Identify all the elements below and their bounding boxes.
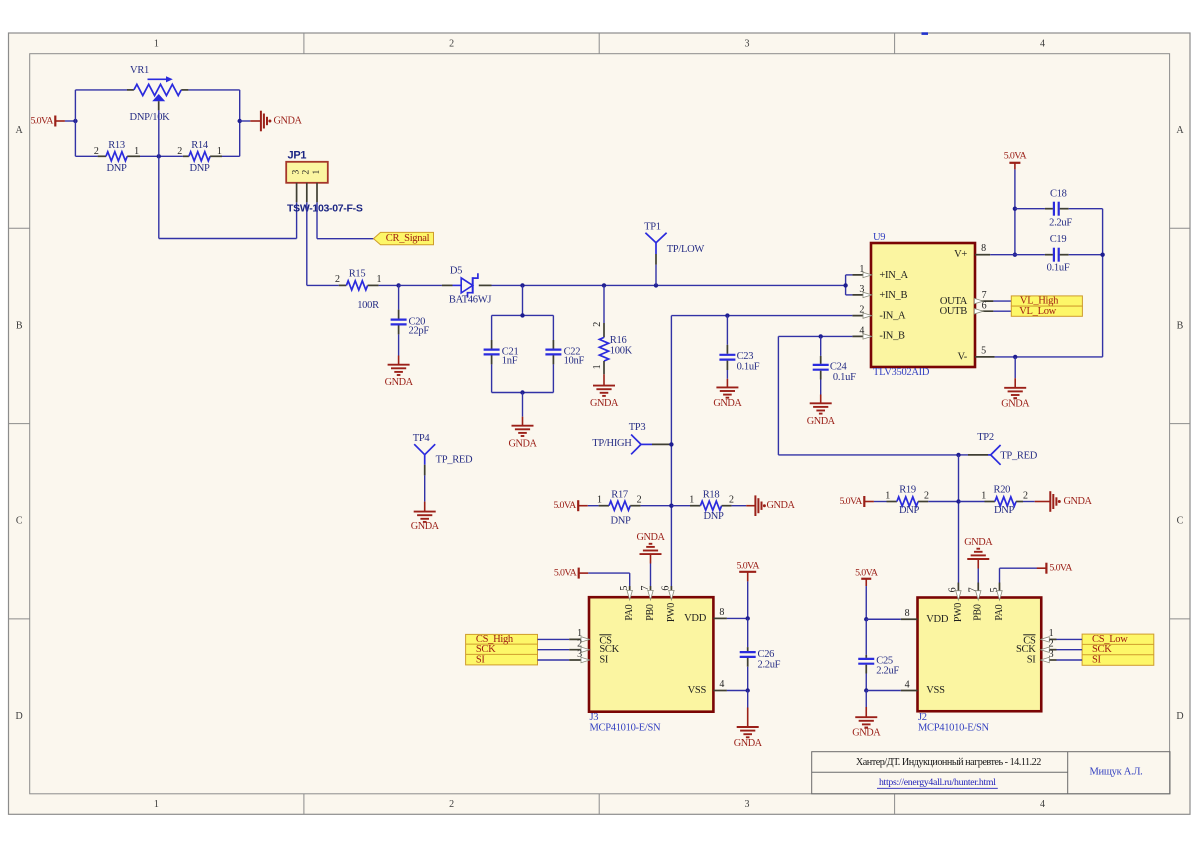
svg-text:3: 3 [1049,649,1054,660]
ground GNDA (C24) [807,395,836,428]
node TP3 junction [669,442,673,446]
svg-text:2: 2 [449,799,454,810]
svg-text:5: 5 [989,587,1000,592]
node C19 right junction [1100,253,1104,257]
stray blue mark on top border [922,32,929,35]
svg-text:5.0VA: 5.0VA [1049,563,1073,574]
svg-text:100R: 100R [357,300,379,311]
svg-text:+IN_A: +IN_A [879,270,908,281]
U9 pin 5 stub [975,346,995,357]
svg-text:R14: R14 [191,140,209,151]
J2 pin 7 stub [968,569,981,601]
U9 pin 7 stub [974,290,993,304]
svg-text:GNDA: GNDA [807,416,836,427]
node R15/C20 junction [396,283,400,287]
svg-text:V+: V+ [954,249,967,260]
wire C18 right down [1102,209,1104,357]
node V+ junction [1013,253,1017,257]
capacitor C19 [1015,234,1103,273]
J3 pin 8 stub [713,607,747,618]
svg-text:1: 1 [377,274,382,285]
svg-text:-IN_A: -IN_A [879,310,906,321]
svg-text:5.0VA: 5.0VA [554,568,578,579]
svg-text:2: 2 [302,170,312,175]
J3 pin 5 stub [619,586,632,600]
svg-text:4: 4 [1040,799,1045,810]
svg-text:22pF: 22pF [409,325,430,336]
node VDD J3 junction [746,616,750,620]
J3 pin 3 wire [538,649,590,663]
U9 pin 3 stub [852,284,871,298]
svg-text:0.1uF: 0.1uF [1047,262,1070,273]
svg-text:CR_Signal: CR_Signal [386,233,430,244]
svg-text:R18: R18 [703,489,720,500]
svg-text:4: 4 [905,680,910,691]
svg-text:2: 2 [924,490,929,501]
svg-text:1: 1 [981,490,986,501]
svg-text:D5: D5 [450,266,462,277]
ground GNDA (V-) [1001,357,1030,410]
svg-text:+IN_B: +IN_B [879,290,907,301]
svg-text:VR1: VR1 [130,65,149,76]
svg-text:2: 2 [1023,490,1028,501]
svg-text:5.0VA: 5.0VA [553,500,577,511]
svg-text:DNP: DNP [189,163,210,174]
resistor R14 [159,140,240,174]
svg-text:1: 1 [217,146,222,157]
node R16 tap [602,283,606,287]
svg-text:2.2uF: 2.2uF [1049,217,1072,228]
svg-text:6: 6 [661,586,672,591]
svg-text:7: 7 [982,290,987,301]
ground GNDA (R20) [1035,501,1050,503]
wire 5.0VA to left rail [65,120,76,122]
svg-text:2: 2 [592,322,603,327]
svg-text:R19: R19 [899,485,916,496]
ground GNDA (C23) [713,379,742,409]
test point TP3 [592,422,671,454]
wire R15 node to D5 [399,284,442,286]
node C21 tap [520,283,524,287]
wire VR1 top left [75,89,127,91]
node wiper junction [157,154,161,158]
resistor R15 [335,268,399,311]
svg-text:A: A [16,125,24,136]
diode D5 BAT46WJ [442,266,492,306]
svg-text:GNDA: GNDA [1064,496,1093,507]
svg-text:1: 1 [1049,628,1054,639]
svg-text:1: 1 [885,490,890,501]
svg-text:3: 3 [859,284,864,295]
node C23 tap [725,313,729,317]
svg-text:TP_RED: TP_RED [1000,451,1037,462]
capacitor C18 [1015,189,1103,229]
svg-text:8: 8 [905,608,910,619]
svg-text:DNP: DNP [703,511,724,522]
svg-text:4: 4 [719,679,724,690]
svg-text:1: 1 [689,495,694,506]
ground GNDA (right of VR1) [240,111,303,132]
svg-text:GNDA: GNDA [411,521,440,532]
svg-text:PA0: PA0 [994,604,1005,620]
J2 pin 5 stub [989,583,1002,601]
svg-text:GNDA: GNDA [767,500,796,511]
svg-text:2: 2 [177,146,182,157]
svg-text:R15: R15 [349,268,366,279]
svg-text:5: 5 [981,346,986,357]
capacitor C23 [719,316,759,379]
svg-text:1: 1 [312,170,322,175]
net flag VL_Low [993,306,1082,317]
svg-text:PW0: PW0 [666,603,677,622]
node VDD J2 junction [864,617,868,621]
svg-text:VSS: VSS [926,685,945,696]
svg-text:1: 1 [154,38,159,49]
svg-text:8: 8 [981,243,986,254]
svg-text:2: 2 [449,38,454,49]
wire C26 rail [747,581,749,618]
svg-text:U9: U9 [873,232,885,243]
svg-text:VSS: VSS [688,685,707,696]
J2 pin 4 stub [866,680,917,691]
IC J2 MCP41010-E/SN [918,598,1042,734]
svg-text:GNDA: GNDA [734,738,763,749]
svg-text:C19: C19 [1050,234,1067,245]
svg-text:B: B [16,320,23,331]
svg-text:3: 3 [745,799,750,810]
svg-text:C24: C24 [830,362,848,373]
wire -IN_B net [778,336,958,455]
wire V+ row [990,254,1015,256]
U9 pin 8 stub [975,243,990,255]
ground GNDA (C21/C22) [509,393,538,450]
capacitor C24 [813,336,856,394]
svg-text:GNDA: GNDA [590,398,619,409]
svg-text:GNDA: GNDA [509,439,538,450]
svg-text:7: 7 [640,586,651,591]
svg-text:1: 1 [577,628,582,639]
node TP2 junction [956,453,960,457]
J2 pin 3 wire [1041,649,1083,663]
J2 pin 2 wire [1041,639,1083,653]
svg-text:D: D [16,711,23,722]
svg-text:PW0: PW0 [953,603,964,622]
svg-text:5: 5 [619,586,630,591]
svg-text:DNP: DNP [994,505,1015,516]
wire main net D5 to U9 [492,284,846,286]
wire V- row [995,356,1103,358]
resistor R16 [592,285,632,374]
node +IN junction [843,283,847,287]
ground GNDA (J2 PB0) [964,537,993,569]
J3 pin 7 stub [640,564,653,600]
svg-text:2: 2 [335,274,340,285]
J3 pin 2 wire [538,639,590,653]
svg-text:TP/LOW: TP/LOW [667,244,705,255]
svg-text:PA0: PA0 [624,604,635,620]
wire +IN branch [846,275,853,295]
wire C21/C22 top [492,314,554,316]
svg-text:5.0VA: 5.0VA [855,568,879,579]
ground GNDA (C20) [385,356,414,389]
capacitor C20 [391,285,430,355]
IC J3 MCP41010-E/SN [589,597,713,733]
svg-text:PB0: PB0 [645,604,656,621]
wire VR1 left rail [74,90,76,156]
svg-text:Мищук А.Л.: Мищук А.Л. [1090,766,1143,777]
svg-text:4: 4 [859,326,864,337]
svg-text:3: 3 [292,170,302,175]
wire -IN_A net [671,316,852,586]
svg-text:MCP41010-E/SN: MCP41010-E/SN [918,722,989,733]
resistor R13 [75,140,158,174]
svg-text:-IN_B: -IN_B [879,331,905,342]
svg-text:Хантер/ДТ. Индукционный нагрев: Хантер/ДТ. Индукционный нагревтеь - 14.1… [856,757,1041,768]
ground GNDA (J3 PB0) [637,532,666,563]
svg-text:TP/HIGH: TP/HIGH [592,438,632,449]
U9 pin 6 stub [974,300,993,314]
svg-text:GNDA: GNDA [964,537,993,548]
resistor R17 [588,489,672,526]
ground GNDA (C26) [734,691,763,750]
svg-text:1: 1 [592,364,603,369]
J3 pin 4 stub [713,679,747,690]
svg-text:GNDA: GNDA [637,532,666,543]
svg-text:2: 2 [859,305,864,316]
svg-text:1: 1 [154,799,159,810]
svg-text:C18: C18 [1050,189,1067,200]
J2 pin 8 stub [866,608,917,619]
svg-text:2.2uF: 2.2uF [758,659,781,670]
svg-text:TP2: TP2 [977,432,994,443]
wire JP1 pin 2 down to R15 [307,202,339,285]
resistor R20 [959,485,1035,517]
svg-text:100K: 100K [610,345,633,356]
node VSS J3 junction [746,688,750,692]
svg-text:6: 6 [982,300,987,311]
U9 pin 1 stub [852,264,871,278]
wire VR1 top right [188,89,239,91]
wire wiper column down [158,110,160,238]
svg-text:5.0VA: 5.0VA [1004,151,1028,162]
net flag CS_High [466,634,538,665]
svg-text:B: B [1177,320,1184,331]
svg-text:TP_RED: TP_RED [436,455,473,466]
svg-text:SI: SI [1027,655,1037,666]
svg-text:GNDA: GNDA [274,116,303,127]
wire C21/C22 bottom [492,392,554,394]
J2 pin 6 stub [948,583,961,601]
svg-text:VDD: VDD [684,613,707,624]
capacitor C22 [545,315,584,392]
svg-text:DNP/10K: DNP/10K [130,112,171,123]
J3 pin 6 stub [661,586,674,600]
node VSS J2 junction [864,688,868,692]
svg-text:8: 8 [719,607,724,618]
test point TP4 [413,433,473,502]
power 5.0VA (J3 PA0) [554,568,630,586]
net flag CR_Signal [374,232,434,244]
J2 pin 1 wire [1041,628,1083,642]
node C24 tap [819,334,823,338]
svg-text:10nF: 10nF [564,356,585,367]
svg-text:SI: SI [599,655,609,666]
svg-text:6: 6 [948,587,959,592]
svg-text:2: 2 [637,495,642,506]
svg-text:TP1: TP1 [644,222,661,233]
wire VR1 right rail [239,90,241,156]
svg-text:OUTB: OUTB [940,306,968,317]
svg-text:0.1uF: 0.1uF [737,361,760,372]
node TP1 tap [654,283,658,287]
wire down to C21/C22 block [522,285,524,315]
capacitor C21 [484,315,519,392]
svg-text:VL_Low: VL_Low [1019,306,1056,317]
svg-text:2: 2 [729,495,734,506]
resistor R18 [671,489,746,522]
svg-text:1: 1 [134,146,139,157]
ground GNDA (R16) [590,374,619,409]
wire wiper to JP1 pin 3 [159,238,297,240]
svg-text:DNP: DNP [610,515,631,526]
capacitor C25 [858,619,899,690]
svg-text:GNDA: GNDA [713,398,742,409]
svg-text:VDD: VDD [926,614,949,625]
test point TP2 [959,432,1038,465]
potentiometer VR1 [127,65,188,123]
resistor R19 [874,485,959,517]
svg-text:DNP: DNP [899,505,920,516]
power 5.0VA (J2 PA0) [1000,563,1074,583]
node R19/R20 junction [956,499,960,503]
svg-text:3: 3 [745,38,750,49]
svg-text:1nF: 1nF [502,356,518,367]
J3 pin 1 wire [538,628,590,642]
svg-text:GNDA: GNDA [852,727,881,738]
svg-text:2.2uF: 2.2uF [876,665,899,676]
svg-text:5.0VA: 5.0VA [839,496,863,507]
node C18 junction [1013,207,1017,211]
U9 pin 2 stub [852,305,871,319]
svg-text:GNDA: GNDA [385,377,414,388]
wire -IN_A column to J3 PW0 [670,586,672,597]
test point TP1 [644,222,704,286]
svg-text:D: D [1176,711,1183,722]
connector JP1 [286,149,363,214]
svg-text:TP3: TP3 [629,422,646,433]
svg-text:1: 1 [597,495,602,506]
svg-text:TLV3502AID: TLV3502AID [873,367,930,378]
svg-text:R13: R13 [108,140,125,151]
wire JP1 pin 1 to CR_Signal [317,202,374,238]
wire 5.0VA down to C18 row [1014,169,1016,254]
svg-text:TSW-103-07-F-S: TSW-103-07-F-S [287,203,363,215]
svg-text:JP1: JP1 [288,149,307,161]
title block [812,752,1170,794]
ground GNDA (C25) [852,691,881,739]
node V- junction [1013,355,1017,359]
wire C25 rail top [865,586,867,619]
svg-text:5.0VA: 5.0VA [737,561,761,572]
svg-text:R17: R17 [611,489,628,500]
svg-text:4: 4 [1040,38,1045,49]
svg-text:1: 1 [859,264,864,275]
svg-text:R20: R20 [993,485,1010,496]
capacitor C26 [740,618,781,690]
svg-text:MCP41010-E/SN: MCP41010-E/SN [590,722,661,733]
svg-text:SI: SI [1092,654,1102,665]
svg-text:2: 2 [94,146,99,157]
svg-text:5.0VA: 5.0VA [30,116,54,127]
svg-text:3: 3 [577,649,582,660]
svg-text:SI: SI [476,654,486,665]
net flag CS_Low [1082,634,1154,666]
svg-text:GNDA: GNDA [1001,398,1030,409]
svg-text:https://energy4all.ru/hunter.h: https://energy4all.ru/hunter.html [879,777,996,788]
ground GNDA (TP4) [411,502,440,532]
node R17/R18 junction [669,504,673,508]
svg-text:TP4: TP4 [413,433,431,444]
U9 pin 4 stub [852,326,871,340]
svg-text:PB0: PB0 [973,604,984,621]
op-amp U9 TLV3502AID [871,232,975,378]
svg-text:V-: V- [957,351,967,362]
svg-text:DNP: DNP [106,163,127,174]
net flag VL_High [993,296,1082,307]
svg-text:C: C [1177,516,1184,527]
svg-text:BAT46WJ: BAT46WJ [449,295,491,306]
ground GNDA (R18) [746,505,755,507]
wire TP2 junction down [958,455,960,583]
svg-text:7: 7 [968,587,979,592]
svg-text:0.1uF: 0.1uF [833,372,856,383]
svg-text:C: C [16,516,23,527]
svg-text:A: A [1176,125,1184,136]
